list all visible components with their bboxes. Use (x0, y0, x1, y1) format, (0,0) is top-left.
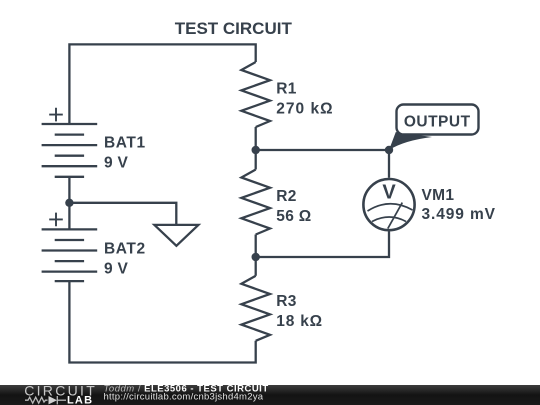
node B junction dot (252, 253, 260, 261)
node A junction dot (252, 146, 260, 154)
node OUTPUT label box (397, 105, 479, 135)
svg-text:OUTPUT: OUTPUT (404, 114, 471, 131)
footer bar (0, 385, 540, 405)
battery BAT2 (42, 213, 146, 282)
node OUTPUT callout tail (389, 132, 432, 150)
svg-text:3.499 mV: 3.499 mV (422, 206, 496, 223)
resistor R1 (241, 62, 333, 127)
svg-text:9 V: 9 V (104, 155, 129, 172)
svg-text:18 kΩ: 18 kΩ (276, 313, 323, 330)
svg-text:R2: R2 (276, 188, 296, 205)
wire between batteries (68, 177, 70, 230)
svg-text:BAT2: BAT2 (104, 241, 146, 258)
svg-text:TEST CIRCUIT: TEST CIRCUIT (175, 19, 293, 38)
wire node B to voltmeter bottom (256, 231, 389, 257)
svg-text:9 V: 9 V (104, 261, 129, 278)
svg-text:BAT1: BAT1 (104, 135, 146, 152)
svg-text:VM1: VM1 (422, 187, 455, 204)
resistor R2 (241, 170, 311, 235)
svg-text:R1: R1 (276, 81, 296, 98)
ground (154, 225, 198, 246)
wire voltmeter top lead (388, 150, 390, 178)
node OUTPUT junction dot (385, 146, 393, 154)
svg-text:V: V (382, 181, 396, 203)
svg-text:LAB: LAB (67, 395, 93, 405)
svg-text:56 Ω: 56 Ω (276, 208, 311, 225)
node battery midpoint junction dot (65, 199, 73, 207)
wire R2 bottom lead (255, 235, 257, 258)
wire bottom rail (R3 bottom lead, bottom horizontal, left rail bottom) (69, 281, 255, 362)
wire node A to output node (256, 149, 389, 151)
battery BAT1 (42, 108, 146, 177)
logo resistor-diode icon (25, 396, 66, 404)
wire R2 top lead (255, 150, 257, 170)
wire to ground (69, 203, 176, 225)
resistor R3 (241, 276, 323, 341)
svg-text:R3: R3 (276, 293, 296, 310)
wire top rail (left rail, top horizontal, R1 top lead) (69, 44, 255, 124)
voltmeter VM1 (363, 179, 496, 230)
wire R3 top lead (255, 257, 257, 276)
svg-text:270 kΩ: 270 kΩ (276, 101, 333, 118)
wire R1 bottom lead (255, 127, 257, 150)
svg-text:http://circuitlab.com/cnb3jshd: http://circuitlab.com/cnb3jshd4m2ya (104, 392, 264, 403)
